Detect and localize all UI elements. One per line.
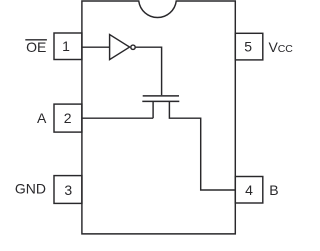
svg-text:1: 1: [62, 38, 70, 54]
svg-text:2: 2: [64, 110, 72, 126]
svg-text:B: B: [269, 182, 278, 198]
svg-text:3: 3: [64, 182, 72, 198]
svg-text:CC: CC: [278, 43, 294, 55]
svg-text:4: 4: [245, 182, 253, 198]
svg-text:A: A: [37, 110, 47, 126]
svg-text:OE: OE: [26, 39, 46, 55]
svg-text:5: 5: [244, 38, 252, 54]
svg-text:GND: GND: [15, 181, 46, 197]
